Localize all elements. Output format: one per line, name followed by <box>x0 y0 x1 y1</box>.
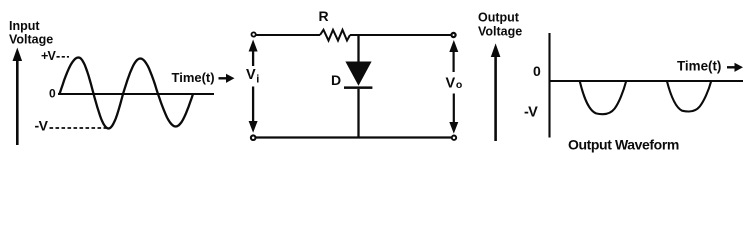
label Vi <box>246 67 259 86</box>
Vo voltage arrow (down head) <box>449 94 458 134</box>
node: output bottom terminal (open circle) <box>452 136 456 140</box>
svg-text:Output: Output <box>478 11 520 25</box>
output voltage axis arrow (vertical) <box>491 43 501 141</box>
output waveform negative half-cycle 1 <box>580 81 627 114</box>
svg-text:+V: +V <box>41 49 56 63</box>
svg-text:0: 0 <box>49 87 56 101</box>
svg-text:o: o <box>456 79 462 91</box>
diode D (cathode bar) <box>344 86 372 89</box>
input time arrow <box>219 74 235 83</box>
label Input Voltage <box>9 19 53 47</box>
resistor R <box>320 30 350 41</box>
input time axis <box>58 93 214 95</box>
wire: top rail junction to diode anode <box>357 35 359 63</box>
svg-text:-V: -V <box>524 105 538 121</box>
Vi voltage arrow (down head) <box>249 87 258 133</box>
svg-text:V: V <box>246 67 256 83</box>
svg-text:D: D <box>331 72 341 88</box>
input sine waveform <box>60 58 194 129</box>
svg-text:i: i <box>256 74 259 86</box>
output time arrow <box>727 63 743 72</box>
svg-text:0: 0 <box>533 63 541 79</box>
+V dashed level line <box>57 56 70 58</box>
node: output top terminal (open circle) <box>451 33 455 37</box>
wire: top left (terminal to resistor) <box>256 34 320 36</box>
svg-text:Time(t): Time(t) <box>677 59 721 74</box>
svg-text:Voltage: Voltage <box>478 25 522 39</box>
output waveform negative half-cycle 2 <box>667 81 711 112</box>
svg-text:Time(t): Time(t) <box>172 70 215 85</box>
-V dashed level line <box>50 127 107 129</box>
diode D (anode triangle) <box>345 62 371 86</box>
output vertical axis <box>548 33 550 138</box>
svg-text:R: R <box>319 8 329 24</box>
svg-text:V: V <box>446 76 456 92</box>
svg-text:Output Waveform: Output Waveform <box>568 137 679 153</box>
node: input top terminal (open circle) <box>251 32 255 36</box>
Vo voltage arrow (up head) <box>449 40 458 72</box>
label Output Voltage <box>478 11 522 39</box>
label Vo <box>446 76 463 92</box>
input voltage axis arrow (vertical) <box>13 48 23 146</box>
Vi voltage arrow (up head) <box>249 40 258 67</box>
svg-text:Voltage: Voltage <box>9 33 53 47</box>
wire: top right (resistor to output terminal) <box>350 34 451 36</box>
wire: bottom rail <box>253 136 454 138</box>
svg-text:-V: -V <box>35 117 49 133</box>
output time axis <box>550 80 744 82</box>
svg-text:Input: Input <box>9 19 40 33</box>
node: input bottom terminal <box>251 135 256 140</box>
wire: diode cathode to bottom rail <box>357 89 359 138</box>
